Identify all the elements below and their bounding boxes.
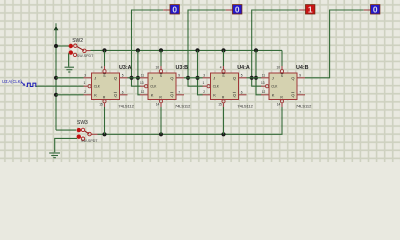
wire PRE tap down to U3:B S pin (160, 50, 162, 66)
node CLR tap U4:A (221, 132, 225, 136)
svg-text:CLK: CLK (213, 85, 220, 89)
node CLR tap U3:A (102, 132, 106, 136)
wire PRE bus to Q2 node and K3 (198, 50, 203, 94)
wire Q1 riser to probe 1 (132, 10, 164, 78)
svg-text:K: K (272, 92, 275, 97)
power symbol VCC (54, 23, 59, 30)
svg-text:3: 3 (84, 74, 86, 78)
value 74LS112 (U4:B) (296, 104, 312, 109)
logic probe 3 pin (299, 9, 306, 11)
svg-text:74LS112: 74LS112 (237, 104, 253, 109)
node Q2 junction (186, 76, 190, 80)
value 74LS112 (U3:B) (175, 104, 191, 109)
wire Q2 down-jog to CLK3 (188, 78, 203, 86)
svg-text:J: J (94, 75, 96, 80)
value 74LS112 (U4:A) (237, 104, 253, 109)
label U3:A (119, 65, 132, 71)
flip-flop U4:B (261, 66, 305, 107)
svg-text:9: 9 (299, 74, 301, 78)
svg-text:74LS112: 74LS112 (175, 104, 191, 109)
svg-text:SW-SPDT: SW-SPDT (77, 54, 94, 58)
node PRE/Q3 link (254, 48, 258, 52)
node Q1 junction (129, 76, 133, 80)
svg-text:Q: Q (291, 92, 294, 97)
wire SW3 lower throw to ground (55, 138, 77, 152)
wire PRE bus to Q1 node and K2 (138, 50, 140, 94)
svg-text:Q: Q (233, 75, 236, 80)
label U4:B (296, 65, 309, 71)
flip-flop U3:A (84, 66, 128, 107)
svg-text:Q: Q (170, 92, 173, 97)
svg-text:11: 11 (141, 74, 145, 78)
svg-text:9: 9 (178, 74, 180, 78)
svg-text:Q: Q (114, 92, 117, 97)
svg-text:10: 10 (276, 66, 280, 70)
svg-text:U3:A: U3:A (119, 65, 132, 71)
wire PRE tap down to U4:A S pin (223, 50, 225, 66)
svg-text:12: 12 (141, 90, 145, 94)
svg-text:74LS112: 74LS112 (296, 104, 312, 109)
wire CLK source to U3:A CLK pin (36, 85, 84, 87)
wire Q3 to J4 (247, 77, 262, 79)
svg-text:1: 1 (203, 81, 205, 85)
svg-text:J: J (272, 75, 274, 80)
svg-text:U3:A(CLK): U3:A(CLK) (2, 79, 22, 84)
wire Q1 down-jog to CLK2 (132, 78, 141, 86)
node Q3 junction (250, 76, 254, 80)
wire VCC to J1 (56, 77, 84, 79)
svg-text:1: 1 (84, 81, 86, 85)
svg-text:K: K (213, 92, 216, 97)
wire Q2 to J3 (184, 77, 203, 79)
svg-text:5: 5 (241, 74, 243, 78)
svg-text:15: 15 (99, 102, 103, 106)
svg-text:SW-SPDT: SW-SPDT (81, 139, 98, 143)
logic probe 2 (state 0) (233, 5, 242, 15)
svg-text:K: K (94, 92, 97, 97)
svg-text:1: 1 (308, 5, 313, 15)
svg-text:U3:B: U3:B (176, 65, 189, 71)
svg-text:5: 5 (122, 74, 124, 78)
svg-text:6: 6 (241, 91, 243, 95)
wire CLR tap up to U3:A R pin (104, 107, 106, 134)
svg-text:7: 7 (299, 91, 301, 95)
wire CLR tap up to U4:A R pin (223, 107, 225, 134)
ground (below SW2) (65, 67, 75, 72)
wire VCC to SW2 pole (56, 45, 69, 47)
wire Q3 riser to probe 3 (252, 10, 299, 78)
node VCC/K1 junction (54, 93, 58, 97)
svg-text:12: 12 (262, 90, 266, 94)
wire PRE tap down to U3:A S pin (104, 50, 106, 66)
svg-text:6: 6 (122, 91, 124, 95)
svg-text:13: 13 (140, 81, 144, 85)
svg-text:Q: Q (170, 75, 173, 80)
wire SW2 lower throw to ground (68, 53, 70, 66)
svg-text:2: 2 (84, 90, 86, 94)
wire VCC to K1 (56, 94, 84, 96)
svg-text:13: 13 (261, 81, 265, 85)
svg-text:J: J (151, 75, 153, 80)
label U3:B (176, 65, 189, 71)
svg-text:0: 0 (373, 5, 378, 15)
svg-text:2: 2 (203, 90, 205, 94)
svg-text:4: 4 (220, 66, 222, 70)
value 74LS112 (U3:A) (118, 104, 134, 109)
logic probe 1 pin (163, 9, 170, 11)
svg-text:14: 14 (277, 102, 281, 106)
flip-flop U4:A (203, 66, 247, 107)
wire SW3 pole CLR bus (98, 107, 283, 134)
svg-text:U4:A: U4:A (237, 65, 250, 71)
svg-text:J: J (213, 75, 215, 80)
node PRE/Q2 link (195, 48, 199, 52)
svg-text:0: 0 (172, 5, 177, 15)
wire Q1 to J2 (128, 77, 141, 79)
node CLR tap U3:B (159, 132, 163, 136)
svg-text:14: 14 (156, 102, 160, 106)
wire VCC rail vertical x=56 (55, 29, 57, 130)
svg-text:11: 11 (262, 74, 266, 78)
logic probe 4 (state 0) (371, 5, 380, 15)
svg-text:CLK: CLK (271, 85, 278, 89)
wire SW2 pole to PRE bus (91, 50, 283, 66)
clock generator U3:A(CLK) (2, 79, 37, 87)
svg-text:U4:B: U4:B (296, 65, 309, 71)
node VCC/J1 junction (54, 76, 58, 80)
node PRE tap U4:A (221, 48, 225, 52)
logic probe 4 pin (364, 9, 371, 11)
node VCC/SW2 junction (54, 44, 58, 48)
svg-text:0: 0 (235, 5, 240, 15)
wire PRE bus to Q3 node and K4 (256, 50, 261, 94)
svg-text:15: 15 (218, 102, 222, 106)
svg-text:CLK: CLK (150, 85, 157, 89)
logic probe 1 (state 0) (170, 5, 179, 15)
svg-text:10: 10 (155, 66, 159, 70)
svg-text:SW3: SW3 (77, 120, 88, 126)
wire CLR tap up to U3:B R pin (160, 107, 162, 134)
svg-text:4: 4 (101, 66, 103, 70)
svg-text:Q: Q (291, 75, 294, 80)
switch SW2 (69, 38, 95, 58)
svg-text:SW2: SW2 (72, 38, 83, 44)
svg-text:Q: Q (233, 92, 236, 97)
svg-text:3: 3 (203, 74, 205, 78)
logic probe 3 (state 1) (306, 5, 315, 15)
node Q2/K3 jog junction (195, 76, 199, 80)
wire Q2 riser to probe 2 (188, 10, 226, 78)
wire VCC rail to SW3 (56, 129, 76, 131)
svg-text:Q: Q (114, 75, 117, 80)
wire Q4 to probe 4 riser (305, 10, 364, 78)
ground (below SW3) (49, 153, 60, 158)
svg-text:K: K (151, 92, 154, 97)
switch SW3 (77, 120, 99, 143)
flip-flop U3:B (140, 66, 184, 107)
node PRE/Q1 link (136, 48, 140, 52)
node Q1/K2 jog junction (136, 76, 140, 80)
node PRE tap U3:A (102, 48, 106, 52)
wire Q3 down-jog to CLK4 (252, 78, 262, 86)
svg-text:7: 7 (178, 91, 180, 95)
logic probe 2 pin (226, 9, 233, 11)
svg-text:CLK: CLK (94, 85, 101, 89)
node Q3/K4 jog junction (254, 76, 258, 80)
label U4:A (237, 65, 250, 71)
svg-text:74LS112: 74LS112 (118, 104, 134, 109)
node PRE tap U3:B (159, 48, 163, 52)
